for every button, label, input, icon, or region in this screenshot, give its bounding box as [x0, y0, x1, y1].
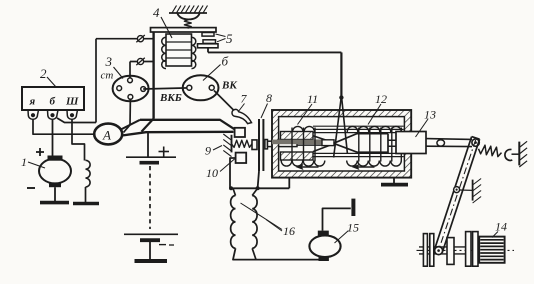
svg-text:12: 12 — [375, 92, 387, 106]
rod clevis 13 — [396, 132, 426, 154]
switch contact top — [128, 78, 133, 83]
ignition switch 3 body — [113, 76, 149, 102]
lever pivot bracket wall — [472, 180, 474, 201]
wire winding bottoms to motor — [233, 248, 319, 259]
solenoid housing hatched frame — [272, 110, 411, 178]
svg-text:1: 1 — [21, 155, 27, 169]
contact push rod through left wall — [268, 141, 298, 146]
svg-text:ст: ст — [101, 70, 114, 82]
contact push rod thin part — [297, 139, 334, 141]
drive collar middle — [447, 238, 454, 265]
lower fixed contact 10 — [236, 153, 247, 163]
wire ignition switch bottom to bus junction — [124, 99, 131, 133]
plunger rod to the right — [388, 139, 412, 141]
generator upper brush — [48, 156, 63, 161]
svg-text:Ш: Ш — [65, 96, 79, 108]
svg-text:15: 15 — [347, 221, 359, 235]
lever upper pivot — [472, 139, 479, 146]
svg-text:14: 14 — [495, 220, 507, 234]
plus sign at generator — [36, 151, 44, 153]
contact rod right plate — [265, 140, 268, 149]
battery upper short plate — [140, 161, 160, 165]
wire battery to ground — [149, 240, 151, 261]
push rod cone tip — [313, 136, 333, 152]
dashed link between battery cells — [149, 166, 151, 229]
sleeve upper lines inside solenoid — [313, 125, 404, 127]
plus sign at battery — [159, 151, 170, 153]
starter motor lower brush — [319, 256, 329, 261]
generator field winding — [85, 160, 90, 187]
switch contact left — [117, 86, 122, 91]
thick bus lower line to fixed contact — [122, 132, 234, 136]
lever return spring — [479, 145, 502, 156]
drive collar disc pair right — [466, 232, 471, 267]
minus dashes at lower battery — [159, 244, 166, 246]
wire motor brush to terminal post — [323, 208, 351, 230]
switch contact bottom — [128, 95, 133, 100]
ground bar under battery — [135, 259, 168, 263]
wire from contact support down to long feed wire — [207, 48, 209, 53]
starter motor 15 upper brush — [318, 231, 329, 236]
battery upper long plate — [126, 156, 176, 158]
switch 6 right contact — [209, 85, 214, 90]
starter switch 6 body — [183, 75, 219, 100]
svg-text:я: я — [29, 96, 36, 108]
svg-text:13: 13 — [424, 108, 436, 122]
thick bus upper line to movable contact — [140, 120, 235, 130]
relay armature bar — [151, 28, 217, 32]
relay yoke lead joining bus — [142, 119, 154, 132]
wire generator to ground — [54, 187, 56, 202]
svg-text:А: А — [102, 128, 111, 143]
pivot bracket pin — [460, 189, 473, 191]
stop wall 9 — [231, 135, 233, 153]
lever centreline — [439, 140, 476, 251]
ground bar under field winding — [73, 202, 99, 206]
contact push rod shadow band — [272, 139, 298, 142]
ammeter A — [94, 124, 122, 145]
wire ammeter to thick bus — [121, 120, 140, 130]
fixed core lower hatched band — [281, 152, 314, 160]
insulator symbol on upper terminal wire — [137, 36, 143, 42]
terminal post — [351, 199, 355, 216]
wire Sh terminal to field winding — [72, 120, 85, 161]
wire relay terminal left drop to b terminal — [95, 39, 97, 123]
svg-text:8: 8 — [266, 91, 272, 105]
push rod grey shaft — [272, 140, 322, 145]
spring anchor hook — [505, 149, 512, 160]
contact plate upper of contacts 5 — [202, 33, 214, 37]
regulator terminal Ya — [28, 110, 39, 119]
winding vertical wires — [291, 128, 293, 162]
wire junction up to solenoid housing — [288, 178, 290, 189]
relay yoke vertical member — [152, 32, 154, 119]
svg-text:б: б — [50, 96, 56, 108]
svg-text:11: 11 — [307, 92, 318, 106]
wire Ya terminal to ammeter — [33, 120, 94, 135]
vertical feed wire drop into solenoid — [340, 52, 342, 100]
svg-text:9: 9 — [205, 144, 211, 158]
contact rod left plate — [252, 140, 257, 150]
pinion gear 14 — [479, 237, 504, 263]
winding loops upper row — [293, 126, 304, 132]
svg-text:ВКБ: ВКБ — [159, 92, 182, 104]
svg-text:ВК: ВК — [221, 80, 237, 92]
lever lower pivot — [435, 247, 443, 255]
wire field winding to ground — [85, 187, 87, 204]
wire from lower terminal down to ignition switch — [129, 62, 131, 80]
solenoid ground stem — [393, 178, 395, 185]
relay terminal wire upper — [96, 38, 154, 40]
starter motor 15 body — [309, 235, 340, 257]
return spring of contact rod — [232, 140, 253, 147]
fixed core upper hatched band — [281, 132, 314, 140]
switch contact right — [141, 87, 146, 92]
winding loops lower row — [281, 161, 292, 167]
lever mid pivot — [454, 187, 460, 193]
generator lower brush — [49, 183, 61, 188]
battery lower short plate — [140, 238, 160, 242]
drive shaft lines — [419, 246, 466, 248]
svg-text:10: 10 — [206, 166, 218, 180]
svg-text:16: 16 — [283, 224, 295, 238]
relay terminal wire lower — [130, 61, 154, 63]
ground bar under generator — [40, 201, 69, 205]
contact plate lower of contacts 5 — [203, 40, 216, 44]
starter winding right of 16 — [252, 188, 257, 195]
wire b terminal to relay feed — [57, 118, 96, 123]
svg-text:2: 2 — [40, 66, 47, 81]
svg-text:5: 5 — [226, 31, 233, 46]
shaft centreline — [417, 249, 515, 251]
regulator terminal b — [48, 110, 59, 119]
motion arrows inside solenoid — [299, 166, 319, 168]
return spring of relay armature — [184, 19, 191, 28]
regulator terminal Sh — [67, 110, 78, 119]
movable contact bar 8 — [258, 119, 260, 171]
contact support bar — [198, 44, 219, 48]
winding feed leads from top — [334, 99, 341, 158]
junction wire under solenoid — [230, 187, 289, 189]
ground bar under solenoid — [381, 183, 408, 187]
switch 6 left contact — [187, 85, 192, 90]
link bar clevis to lever — [426, 138, 472, 141]
svg-text:4: 4 — [153, 5, 160, 20]
coil 4 of traction relay — [166, 34, 192, 66]
generator 1 body — [39, 159, 71, 184]
wire lower contact to winding junction — [230, 158, 236, 188]
svg-text:б: б — [222, 54, 229, 69]
bell seat under ceiling — [177, 13, 200, 20]
spring anchor wall — [518, 142, 520, 166]
wire b terminal to generator upper brush — [52, 120, 54, 156]
sleeve lower lines inside solenoid — [313, 152, 404, 154]
starter winding left of 16 — [233, 188, 236, 195]
upper fixed contact — [235, 128, 245, 137]
long feed wire to solenoid winding — [208, 51, 341, 53]
battery lower long plate — [124, 233, 178, 235]
minus sign at generator — [27, 187, 35, 189]
drive collar disc pair left — [423, 234, 427, 267]
engagement lever — [435, 137, 472, 250]
push rod tip sleeve — [322, 140, 334, 146]
wire starter switch to contact lever 7 — [214, 91, 235, 112]
fixed support (hatched ceiling) above relay armature — [169, 12, 207, 14]
wire ignition switch to starter button — [143, 88, 189, 89]
solenoid plunger — [334, 134, 389, 153]
link bar hole — [437, 140, 445, 146]
voltage regulator box 2 — [22, 87, 84, 110]
insulator symbol on lower terminal wire — [137, 58, 143, 64]
svg-text:3: 3 — [105, 54, 113, 69]
contact lever 7 — [232, 109, 252, 123]
wire contact bar 8 down to junction — [258, 171, 259, 188]
wire bus to battery positive — [147, 132, 149, 157]
